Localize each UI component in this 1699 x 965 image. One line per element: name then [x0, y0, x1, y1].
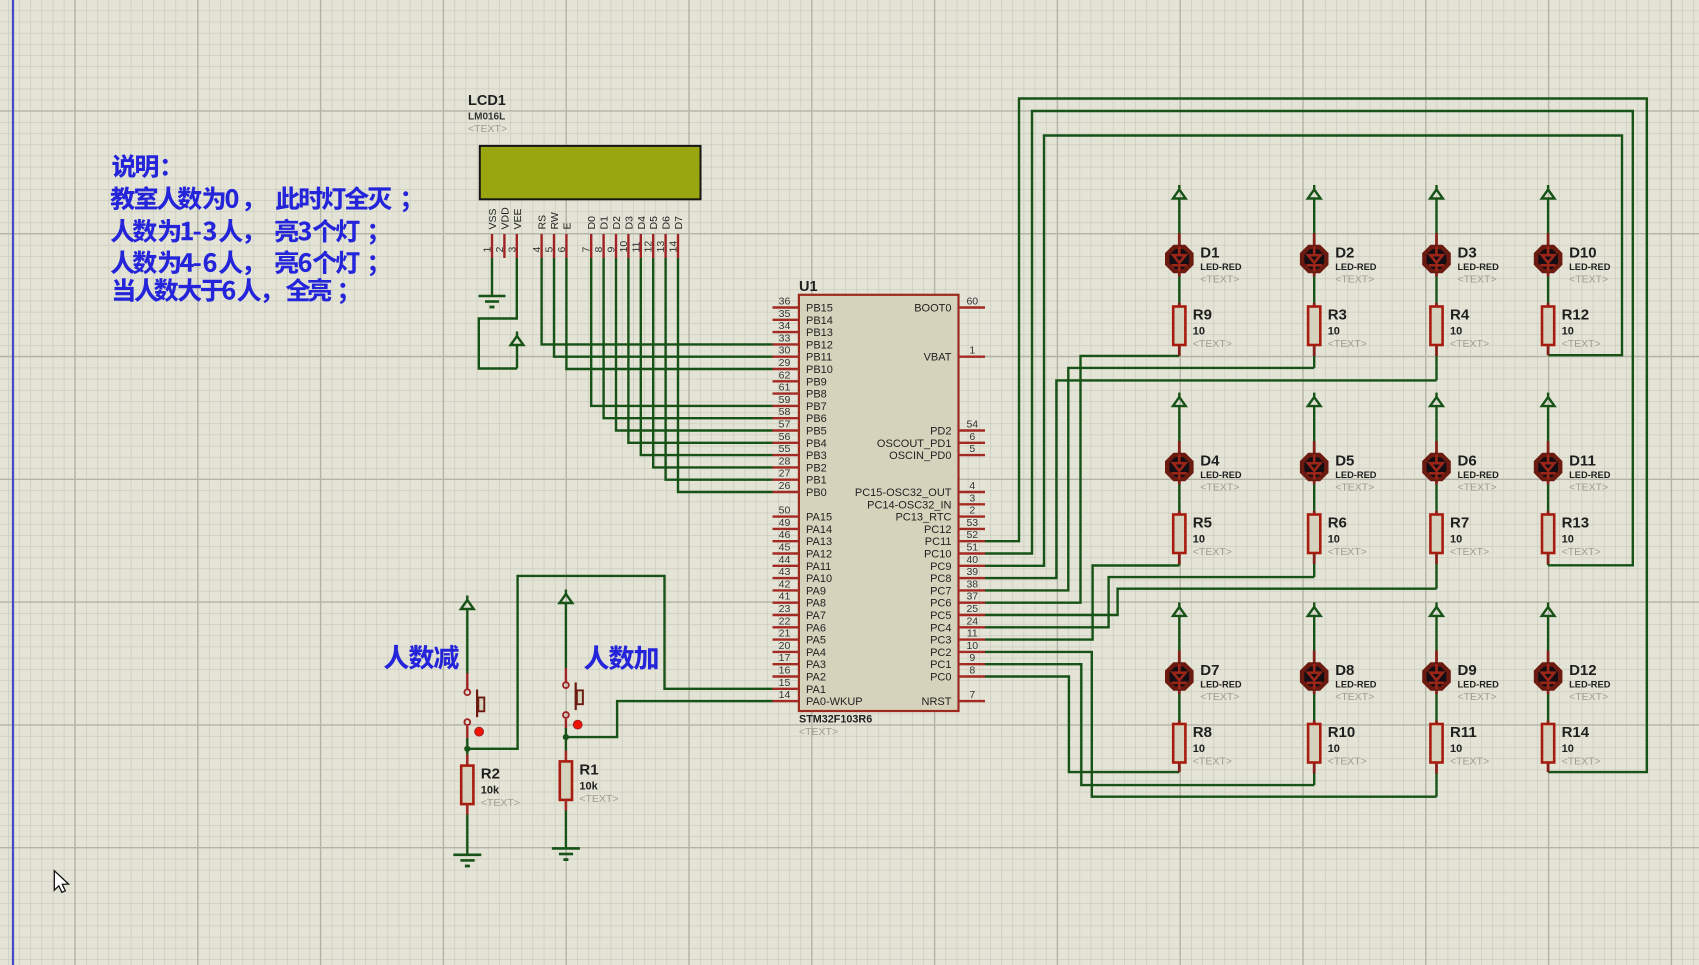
svg-text:PB14: PB14 [806, 315, 833, 327]
svg-text:D1: D1 [599, 216, 611, 230]
svg-text:<TEXT>: <TEXT> [1458, 691, 1497, 703]
svg-text:PA11: PA11 [806, 561, 831, 573]
svg-text:VBAT: VBAT [924, 352, 952, 364]
svg-text:RW: RW [549, 212, 561, 229]
svg-text:8: 8 [593, 247, 605, 253]
svg-text:R6: R6 [1328, 515, 1347, 532]
svg-text:54: 54 [966, 419, 978, 431]
svg-text:43: 43 [779, 566, 791, 578]
svg-text:VDD: VDD [499, 207, 511, 230]
svg-text:D11: D11 [1569, 453, 1596, 470]
svg-text:10: 10 [1193, 534, 1205, 546]
svg-text:PC0: PC0 [930, 672, 951, 684]
svg-text:<TEXT>: <TEXT> [1562, 756, 1601, 768]
svg-text:LED-RED: LED-RED [1335, 470, 1377, 480]
svg-text:46: 46 [779, 529, 791, 541]
svg-text:RS: RS [537, 215, 549, 230]
svg-text:D6: D6 [661, 216, 673, 230]
svg-text:10: 10 [618, 241, 630, 253]
svg-text:PD2: PD2 [930, 426, 951, 438]
svg-text:LED-RED: LED-RED [1458, 262, 1500, 272]
svg-text:61: 61 [779, 382, 791, 394]
svg-text:6: 6 [556, 247, 568, 253]
svg-text:LM016L: LM016L [468, 112, 505, 123]
svg-text:9: 9 [606, 247, 618, 253]
svg-text:LED-RED: LED-RED [1200, 470, 1242, 480]
svg-text:STM32F103R6: STM32F103R6 [799, 714, 872, 726]
svg-text:36: 36 [779, 296, 791, 308]
svg-text:58: 58 [779, 406, 791, 418]
svg-text:D9: D9 [1458, 662, 1477, 679]
svg-text:21: 21 [779, 628, 791, 640]
svg-text:PB1: PB1 [806, 475, 827, 487]
svg-text:<TEXT>: <TEXT> [1562, 546, 1601, 558]
svg-text:12: 12 [643, 241, 655, 253]
svg-text:PC15-OSC32_OUT: PC15-OSC32_OUT [855, 487, 952, 499]
svg-text:PC10: PC10 [924, 549, 952, 561]
svg-text:1: 1 [969, 345, 975, 357]
svg-text:VSS: VSS [487, 208, 499, 229]
svg-text:D3: D3 [623, 216, 635, 230]
svg-text:LED-RED: LED-RED [1200, 262, 1242, 272]
svg-text:D2: D2 [611, 216, 623, 230]
svg-text:4: 4 [531, 247, 543, 253]
svg-text:27: 27 [779, 468, 791, 480]
svg-text:40: 40 [966, 554, 978, 566]
svg-text:PA13: PA13 [806, 536, 832, 548]
svg-text:D0: D0 [586, 216, 598, 230]
svg-text:D12: D12 [1569, 662, 1597, 679]
svg-text:PC6: PC6 [930, 598, 951, 610]
svg-text:33: 33 [779, 332, 791, 344]
svg-text:PC11: PC11 [925, 536, 952, 548]
svg-text:<TEXT>: <TEXT> [1200, 274, 1239, 286]
svg-text:D7: D7 [673, 216, 685, 230]
svg-text:PC3: PC3 [930, 635, 951, 647]
svg-text:LED-RED: LED-RED [1569, 680, 1611, 690]
svg-text:10: 10 [1562, 743, 1574, 755]
svg-text:D5: D5 [648, 216, 660, 230]
svg-text:10: 10 [1562, 534, 1574, 546]
svg-text:<TEXT>: <TEXT> [1193, 756, 1232, 768]
svg-text:OSCOUT_PD1: OSCOUT_PD1 [877, 438, 952, 450]
svg-text:<TEXT>: <TEXT> [1335, 691, 1374, 703]
svg-text:5: 5 [544, 247, 556, 253]
svg-text:PA4: PA4 [806, 647, 826, 659]
svg-text:<TEXT>: <TEXT> [1569, 482, 1608, 494]
svg-text:10: 10 [1193, 743, 1205, 755]
svg-text:PB11: PB11 [806, 352, 832, 364]
svg-text:<TEXT>: <TEXT> [1328, 338, 1367, 350]
svg-text:D4: D4 [1200, 453, 1220, 470]
svg-text:3: 3 [506, 247, 518, 253]
svg-text:8: 8 [969, 665, 975, 677]
svg-text:PC5: PC5 [930, 610, 951, 622]
svg-text:D4: D4 [636, 216, 648, 230]
svg-text:<TEXT>: <TEXT> [1569, 274, 1608, 286]
svg-text:10: 10 [1450, 534, 1462, 546]
svg-text:R4: R4 [1450, 307, 1470, 324]
svg-text:13: 13 [655, 241, 667, 253]
svg-text:PB13: PB13 [806, 327, 833, 339]
svg-text:50: 50 [779, 505, 791, 517]
svg-text:1: 1 [482, 247, 494, 253]
svg-text:14: 14 [668, 241, 680, 253]
svg-text:<TEXT>: <TEXT> [579, 793, 618, 805]
svg-text:<TEXT>: <TEXT> [1200, 691, 1239, 703]
svg-text:LED-RED: LED-RED [1458, 680, 1500, 690]
svg-text:VEE: VEE [512, 208, 524, 229]
svg-text:R10: R10 [1328, 724, 1356, 741]
svg-text:4: 4 [969, 480, 975, 492]
svg-text:PA9: PA9 [806, 585, 826, 597]
svg-text:56: 56 [779, 431, 791, 443]
svg-text:R14: R14 [1562, 724, 1590, 741]
svg-text:41: 41 [779, 591, 791, 603]
svg-text:17: 17 [779, 652, 791, 664]
svg-text:LED-RED: LED-RED [1569, 470, 1611, 480]
svg-text:PC12: PC12 [924, 524, 952, 536]
svg-text:LCD1: LCD1 [468, 93, 506, 109]
svg-text:25: 25 [966, 603, 978, 615]
svg-text:PB4: PB4 [806, 438, 827, 450]
svg-text:PA10: PA10 [806, 573, 832, 585]
svg-text:44: 44 [779, 554, 791, 566]
svg-text:60: 60 [966, 296, 978, 308]
svg-text:R2: R2 [481, 766, 500, 783]
svg-text:57: 57 [779, 419, 791, 431]
svg-text:R11: R11 [1450, 724, 1477, 741]
svg-text:PA6: PA6 [806, 622, 826, 634]
svg-text:7: 7 [969, 689, 975, 701]
svg-text:PA7: PA7 [806, 610, 826, 622]
svg-text:5: 5 [969, 443, 975, 455]
svg-text:U1: U1 [799, 279, 818, 295]
svg-text:<TEXT>: <TEXT> [481, 797, 520, 809]
svg-text:62: 62 [779, 369, 791, 381]
svg-text:E: E [561, 222, 573, 229]
svg-text:R9: R9 [1193, 307, 1212, 324]
svg-text:PA2: PA2 [806, 672, 826, 684]
svg-text:<TEXT>: <TEXT> [468, 123, 507, 135]
svg-text:23: 23 [779, 603, 791, 615]
svg-text:6: 6 [969, 431, 975, 443]
svg-text:51: 51 [966, 542, 978, 554]
svg-text:PA14: PA14 [806, 524, 832, 536]
svg-text:PB12: PB12 [806, 339, 833, 351]
svg-text:PB10: PB10 [806, 364, 833, 376]
svg-text:R1: R1 [579, 761, 598, 778]
svg-text:PB15: PB15 [806, 303, 833, 315]
svg-text:3: 3 [969, 492, 975, 504]
svg-text:59: 59 [779, 394, 791, 406]
svg-text:34: 34 [779, 320, 791, 332]
svg-text:PA15: PA15 [806, 512, 832, 524]
svg-text:10: 10 [966, 640, 978, 652]
svg-text:38: 38 [966, 578, 978, 590]
svg-text:BOOT0: BOOT0 [914, 303, 951, 315]
svg-text:PC14-OSC32_IN: PC14-OSC32_IN [867, 499, 951, 511]
svg-text:<TEXT>: <TEXT> [1569, 691, 1608, 703]
svg-text:45: 45 [779, 542, 791, 554]
svg-text:<TEXT>: <TEXT> [1328, 756, 1367, 768]
svg-text:PA12: PA12 [806, 549, 832, 561]
svg-text:NRST: NRST [922, 696, 952, 708]
svg-text:R7: R7 [1450, 515, 1469, 532]
svg-text:PC8: PC8 [930, 573, 951, 585]
svg-text:D10: D10 [1569, 245, 1597, 262]
svg-text:37: 37 [966, 591, 978, 603]
svg-text:<TEXT>: <TEXT> [1193, 338, 1232, 350]
svg-text:PA0-WKUP: PA0-WKUP [806, 696, 863, 708]
svg-text:2: 2 [969, 505, 975, 517]
svg-text:PA1: PA1 [806, 684, 826, 696]
svg-text:PB3: PB3 [806, 450, 827, 462]
svg-text:10: 10 [1450, 743, 1462, 755]
svg-text:PA8: PA8 [806, 598, 826, 610]
svg-text:55: 55 [779, 443, 791, 455]
svg-text:LED-RED: LED-RED [1335, 262, 1377, 272]
svg-text:10: 10 [1328, 534, 1340, 546]
svg-text:PB2: PB2 [806, 462, 827, 474]
svg-text:PA5: PA5 [806, 635, 826, 647]
svg-text:10: 10 [1193, 326, 1205, 338]
svg-text:D1: D1 [1200, 245, 1219, 262]
svg-text:<TEXT>: <TEXT> [1200, 482, 1239, 494]
svg-text:11: 11 [630, 241, 642, 252]
svg-text:14: 14 [779, 689, 791, 701]
svg-text:LED-RED: LED-RED [1335, 680, 1377, 690]
svg-text:R3: R3 [1328, 307, 1347, 324]
svg-text:<TEXT>: <TEXT> [799, 726, 838, 738]
svg-text:9: 9 [969, 652, 975, 664]
svg-text:10k: 10k [579, 780, 598, 792]
svg-text:11: 11 [967, 628, 978, 640]
svg-text:LED-RED: LED-RED [1200, 680, 1242, 690]
svg-text:53: 53 [966, 517, 978, 529]
svg-text:42: 42 [779, 578, 791, 590]
svg-text:PB5: PB5 [806, 426, 827, 438]
svg-text:<TEXT>: <TEXT> [1193, 546, 1232, 558]
svg-text:2: 2 [494, 247, 506, 253]
svg-text:39: 39 [966, 566, 978, 578]
svg-text:<TEXT>: <TEXT> [1450, 338, 1489, 350]
svg-text:24: 24 [966, 615, 978, 627]
svg-text:22: 22 [779, 615, 791, 627]
svg-text:D6: D6 [1458, 453, 1477, 470]
svg-text:7: 7 [581, 247, 593, 253]
svg-text:R12: R12 [1562, 307, 1590, 324]
svg-text:<TEXT>: <TEXT> [1450, 546, 1489, 558]
svg-text:35: 35 [779, 308, 791, 320]
svg-text:LED-RED: LED-RED [1458, 470, 1500, 480]
svg-text:PC7: PC7 [930, 585, 951, 597]
svg-text:D2: D2 [1335, 245, 1354, 262]
svg-text:30: 30 [779, 345, 791, 357]
svg-text:16: 16 [779, 665, 791, 677]
svg-text:49: 49 [779, 517, 791, 529]
svg-text:D7: D7 [1200, 662, 1219, 679]
svg-text:PA3: PA3 [806, 659, 826, 671]
svg-text:<TEXT>: <TEXT> [1335, 274, 1374, 286]
svg-text:PB6: PB6 [806, 413, 827, 425]
svg-text:10: 10 [1328, 743, 1340, 755]
svg-text:<TEXT>: <TEXT> [1328, 546, 1367, 558]
svg-text:OSCIN_PD0: OSCIN_PD0 [889, 450, 951, 462]
svg-text:<TEXT>: <TEXT> [1458, 274, 1497, 286]
svg-text:15: 15 [779, 677, 791, 689]
svg-text:26: 26 [779, 480, 791, 492]
svg-text:D5: D5 [1335, 453, 1354, 470]
svg-text:<TEXT>: <TEXT> [1450, 756, 1489, 768]
svg-text:PC13_RTC: PC13_RTC [895, 512, 951, 524]
svg-text:20: 20 [779, 640, 791, 652]
svg-text:10: 10 [1562, 326, 1574, 338]
svg-text:28: 28 [779, 455, 791, 467]
svg-text:PB0: PB0 [806, 487, 827, 499]
svg-text:PC2: PC2 [930, 647, 951, 659]
svg-text:29: 29 [779, 357, 791, 369]
svg-text:10k: 10k [481, 785, 500, 797]
svg-text:R13: R13 [1562, 515, 1590, 532]
svg-text:R8: R8 [1193, 724, 1212, 741]
svg-text:PC1: PC1 [930, 659, 951, 671]
svg-text:LED-RED: LED-RED [1569, 262, 1611, 272]
svg-text:52: 52 [966, 529, 978, 541]
svg-text:<TEXT>: <TEXT> [1335, 482, 1374, 494]
svg-text:D8: D8 [1335, 662, 1354, 679]
svg-text:D3: D3 [1458, 245, 1477, 262]
svg-text:<TEXT>: <TEXT> [1562, 338, 1601, 350]
svg-text:10: 10 [1328, 326, 1340, 338]
svg-text:<TEXT>: <TEXT> [1458, 482, 1497, 494]
svg-text:PC9: PC9 [930, 561, 951, 573]
svg-text:PB7: PB7 [806, 401, 827, 413]
svg-text:PB8: PB8 [806, 389, 827, 401]
svg-text:10: 10 [1450, 326, 1462, 338]
svg-text:PC4: PC4 [930, 622, 951, 634]
svg-text:R5: R5 [1193, 515, 1212, 532]
svg-text:PB9: PB9 [806, 376, 827, 388]
